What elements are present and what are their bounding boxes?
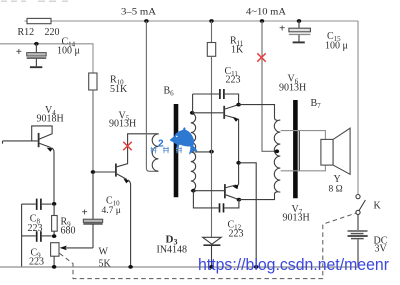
speaker Y bbox=[321, 128, 350, 194]
wire B7 center tap feed bbox=[262, 21, 277, 151]
capacitor C8 bbox=[22, 199, 52, 234]
svg-text:2: 2 bbox=[158, 139, 164, 150]
node junction V5 emitter bbox=[128, 265, 133, 269]
wire R10 to V5 base node bbox=[92, 90, 94, 172]
svg-text:3–5 mA: 3–5 mA bbox=[121, 7, 156, 18]
base wire bbox=[3, 141, 38, 144]
svg-text:K: K bbox=[374, 201, 382, 212]
emitter bbox=[40, 143, 51, 147]
svg-text:680: 680 bbox=[61, 226, 76, 237]
wire V7 collector to B7 primary bottom bbox=[239, 192, 278, 200]
watermark blue glyphs bbox=[151, 147, 183, 154]
svg-text:3V: 3V bbox=[375, 244, 388, 255]
node junction W bottom bbox=[52, 265, 57, 269]
svg-text:1K: 1K bbox=[231, 45, 244, 56]
switch K bbox=[356, 195, 382, 215]
wire common emitters bbox=[238, 119, 240, 185]
transistor V6 bbox=[192, 74, 306, 122]
capacitor C9 bbox=[22, 231, 52, 267]
svg-text:223: 223 bbox=[229, 229, 244, 240]
svg-text:+: + bbox=[279, 23, 285, 35]
svg-text:100 μ: 100 μ bbox=[325, 41, 348, 52]
test point X V5 collector bbox=[123, 142, 131, 150]
svg-text:+: + bbox=[82, 207, 88, 219]
svg-text:220: 220 bbox=[45, 27, 60, 38]
node junction C8 / R9 bbox=[52, 202, 57, 206]
wire B7 secondary to speaker bbox=[281, 131, 326, 171]
transistor V7 bbox=[193, 184, 309, 223]
capacitor C12 bbox=[193, 191, 243, 240]
capacitor C14 bbox=[16, 37, 80, 68]
transistor V4 bbox=[3, 105, 64, 204]
collector loop bbox=[32, 126, 52, 141]
node junction V5 base / C10 bbox=[91, 170, 96, 174]
transistor V5 bbox=[93, 111, 159, 268]
node junction emitters bbox=[236, 161, 241, 165]
emitter bbox=[117, 174, 127, 180]
wire bottom ground rail bbox=[0, 266, 359, 268]
wire B6 primary bottom feed bbox=[146, 21, 158, 171]
collector bbox=[226, 195, 239, 200]
transformer B7 secondary winding bbox=[298, 131, 300, 171]
base wire bbox=[192, 112, 223, 114]
node junction C14 bbox=[34, 42, 39, 46]
svg-text:4~10 mA: 4~10 mA bbox=[246, 7, 286, 18]
node junction B6 secondary top tap bbox=[190, 111, 195, 115]
svg-text:100 μ: 100 μ bbox=[57, 46, 80, 57]
svg-text:51K: 51K bbox=[110, 84, 128, 95]
base wire bbox=[93, 171, 115, 173]
resistor R11 bbox=[207, 21, 244, 56]
test point X B7 feed bbox=[257, 53, 265, 61]
svg-text:4.7 μ: 4.7 μ bbox=[102, 206, 121, 216]
emitter bbox=[226, 185, 236, 188]
svg-text:9013H: 9013H bbox=[279, 83, 306, 94]
svg-text:5K: 5K bbox=[99, 259, 112, 270]
svg-text:8 Ω: 8 Ω bbox=[329, 185, 343, 195]
node junction D3 cathode bbox=[209, 265, 214, 269]
node junction V7 collector bbox=[237, 198, 242, 202]
svg-text:Y: Y bbox=[334, 174, 341, 185]
transformer B7 core bbox=[293, 100, 298, 198]
collector bbox=[117, 134, 159, 167]
capacitor C11 bbox=[193, 66, 241, 113]
resistor R9 bbox=[52, 204, 76, 237]
resistor R10 bbox=[89, 73, 128, 95]
battery DC 3V bbox=[348, 215, 388, 268]
svg-text:R12: R12 bbox=[18, 27, 35, 38]
node junction C9 / W bbox=[52, 234, 57, 238]
base wire bbox=[193, 190, 224, 192]
transformer B7 primary winding bbox=[274, 120, 280, 192]
svg-text:9013H: 9013H bbox=[283, 213, 310, 224]
node junction top rail B6 feed bbox=[144, 19, 149, 23]
wire V6 collector to B7 primary top bbox=[239, 105, 278, 121]
svg-text:9018H: 9018H bbox=[37, 114, 64, 125]
node junction emitter return bbox=[254, 265, 259, 269]
wire ganged switch dashed link bbox=[60, 213, 356, 279]
node junction B6 secondary bottom tap bbox=[191, 189, 196, 193]
transformer B6 core bbox=[174, 104, 179, 197]
wire C8/C9 left bypass bbox=[21, 204, 23, 267]
svg-text:https://blog.csdn.net/meenr: https://blog.csdn.net/meenr bbox=[198, 255, 389, 274]
watermark dolphin bbox=[158, 127, 198, 154]
svg-text:223: 223 bbox=[29, 257, 44, 268]
node junction top rail C15 bbox=[297, 19, 302, 23]
transformer B6 primary winding bbox=[152, 134, 158, 171]
base bar bbox=[115, 164, 117, 177]
node junction B6 secondary center tap bbox=[195, 151, 212, 153]
node junction top rail R11 bbox=[209, 19, 214, 23]
node junction B7 center tap bbox=[275, 149, 280, 153]
cropped artifact dashes bbox=[1, 0, 68, 2]
wire top supply rail bbox=[25, 20, 359, 22]
wire emitters to ground bbox=[239, 163, 257, 267]
resistor R12 bbox=[27, 18, 51, 23]
diode D3 bbox=[157, 234, 222, 268]
svg-text:+: + bbox=[16, 46, 22, 58]
capacitor C10 bbox=[82, 174, 121, 248]
svg-text:9013H: 9013H bbox=[109, 119, 136, 130]
collector bbox=[225, 105, 239, 109]
capacitor C15 bbox=[279, 21, 348, 52]
svg-text:IN4148: IN4148 bbox=[157, 245, 188, 256]
base bar bbox=[224, 184, 226, 198]
base bar bbox=[38, 133, 40, 147]
wire battery feed bbox=[357, 21, 359, 195]
base bar bbox=[223, 106, 225, 119]
wire left input rail bbox=[0, 44, 93, 73]
svg-text:W: W bbox=[99, 247, 109, 258]
node junction top rail B7 center tap feed bbox=[260, 19, 265, 23]
wire R11 to D3 bbox=[211, 56, 213, 237]
emitter bbox=[225, 115, 236, 118]
node junction V6 collector bbox=[236, 103, 241, 107]
potentiometer W bbox=[51, 243, 112, 270]
transformer B6 secondary winding bbox=[191, 113, 196, 191]
svg-text:223: 223 bbox=[226, 75, 241, 86]
